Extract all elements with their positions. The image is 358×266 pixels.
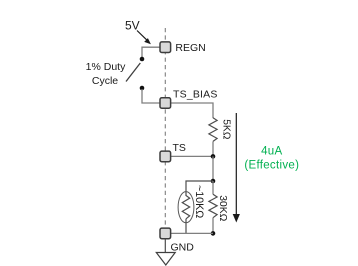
ground symbol [156, 253, 175, 266]
svg-text:GND: GND [171, 242, 195, 254]
svg-text:4uA: 4uA [261, 146, 282, 158]
wire TS node down [212, 156, 214, 181]
resistor 30K [209, 194, 217, 217]
wire GND pad to node [171, 232, 213, 234]
wire R2 bottom to GND node [212, 218, 214, 234]
wire TS pad to node [171, 155, 213, 157]
svg-text:TS_BIAS: TS_BIAS [173, 88, 218, 100]
svg-text:1% Duty: 1% Duty [86, 61, 126, 73]
svg-text:5KΩ: 5KΩ [220, 119, 231, 140]
resistor 5K [209, 118, 217, 142]
pad GND [160, 228, 171, 239]
node switch top [140, 57, 145, 62]
node thermistor top junction [211, 179, 216, 184]
wire junction to thermistor branch [186, 181, 213, 196]
wire switch bottom to TS_BIAS [142, 89, 160, 103]
ground stem [164, 239, 166, 253]
pad REGN [160, 42, 171, 53]
pad TS [160, 151, 171, 162]
svg-text:(Effective): (Effective) [244, 159, 299, 171]
dashed duty-cycle control line [164, 28, 166, 229]
resistor 30K top wire [212, 181, 214, 194]
wire REGN to switch top [142, 47, 160, 58]
effective current arrow [235, 113, 237, 215]
5V pointer arrow [137, 31, 147, 41]
node GND junction [211, 231, 216, 236]
svg-text:~10KΩ: ~10KΩ [193, 185, 205, 218]
svg-text:30KΩ: 30KΩ [217, 195, 228, 221]
svg-text:Cycle: Cycle [92, 75, 118, 87]
node switch bottom [140, 86, 145, 91]
node TS junction [211, 154, 216, 159]
thermistor RT zigzag [182, 196, 189, 219]
svg-text:REGN: REGN [175, 42, 205, 54]
thermistor ellipse [178, 192, 194, 223]
pad TS_BIAS [160, 98, 171, 109]
wire R1 bottom to TS node [212, 141, 214, 156]
wire TS_BIAS to resistor R1 top [171, 103, 213, 118]
svg-text:TS: TS [173, 142, 186, 154]
switch blade [126, 63, 140, 82]
wire thermistor bottom [185, 219, 187, 234]
